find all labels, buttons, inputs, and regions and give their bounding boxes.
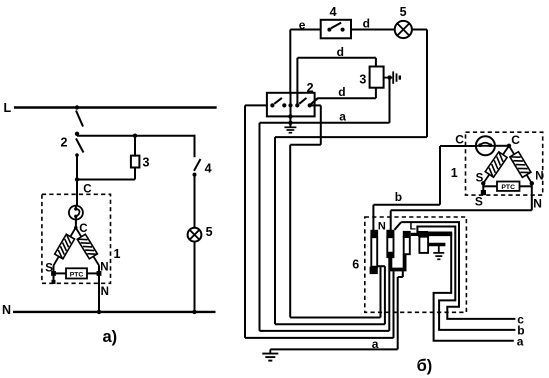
svg-text:C: C	[79, 223, 87, 235]
svg-text:5: 5	[206, 225, 213, 239]
svg-text:C: C	[511, 133, 520, 147]
svg-text:1: 1	[451, 166, 458, 180]
svg-text:б): б)	[417, 357, 433, 375]
svg-text:L: L	[4, 101, 12, 115]
svg-text:a: a	[339, 109, 346, 123]
svg-text:6: 6	[352, 257, 359, 271]
svg-text:S: S	[475, 194, 483, 208]
svg-text:N: N	[100, 261, 108, 273]
svg-text:b: b	[395, 190, 402, 204]
svg-text:2: 2	[307, 81, 314, 95]
svg-text:N: N	[2, 303, 11, 317]
svg-text:4: 4	[330, 5, 337, 19]
svg-text:a: a	[517, 335, 524, 349]
svg-text:3: 3	[359, 73, 366, 87]
svg-text:a: a	[372, 337, 379, 351]
svg-text:N: N	[101, 286, 109, 298]
svg-text:4: 4	[205, 162, 212, 176]
svg-text:1: 1	[114, 247, 121, 261]
svg-text:S: S	[476, 173, 484, 185]
svg-text:d: d	[338, 85, 345, 99]
svg-text:а): а)	[103, 328, 118, 346]
svg-text:N: N	[535, 170, 543, 182]
svg-text:2: 2	[61, 136, 68, 150]
svg-text:C: C	[455, 133, 464, 147]
svg-text:5: 5	[400, 5, 407, 19]
svg-text:PTC: PTC	[70, 272, 84, 279]
svg-text:N: N	[378, 220, 386, 232]
svg-text:S: S	[45, 262, 53, 274]
svg-text:PTC: PTC	[501, 184, 515, 191]
svg-text:N: N	[533, 197, 542, 211]
svg-text:3: 3	[143, 155, 150, 169]
